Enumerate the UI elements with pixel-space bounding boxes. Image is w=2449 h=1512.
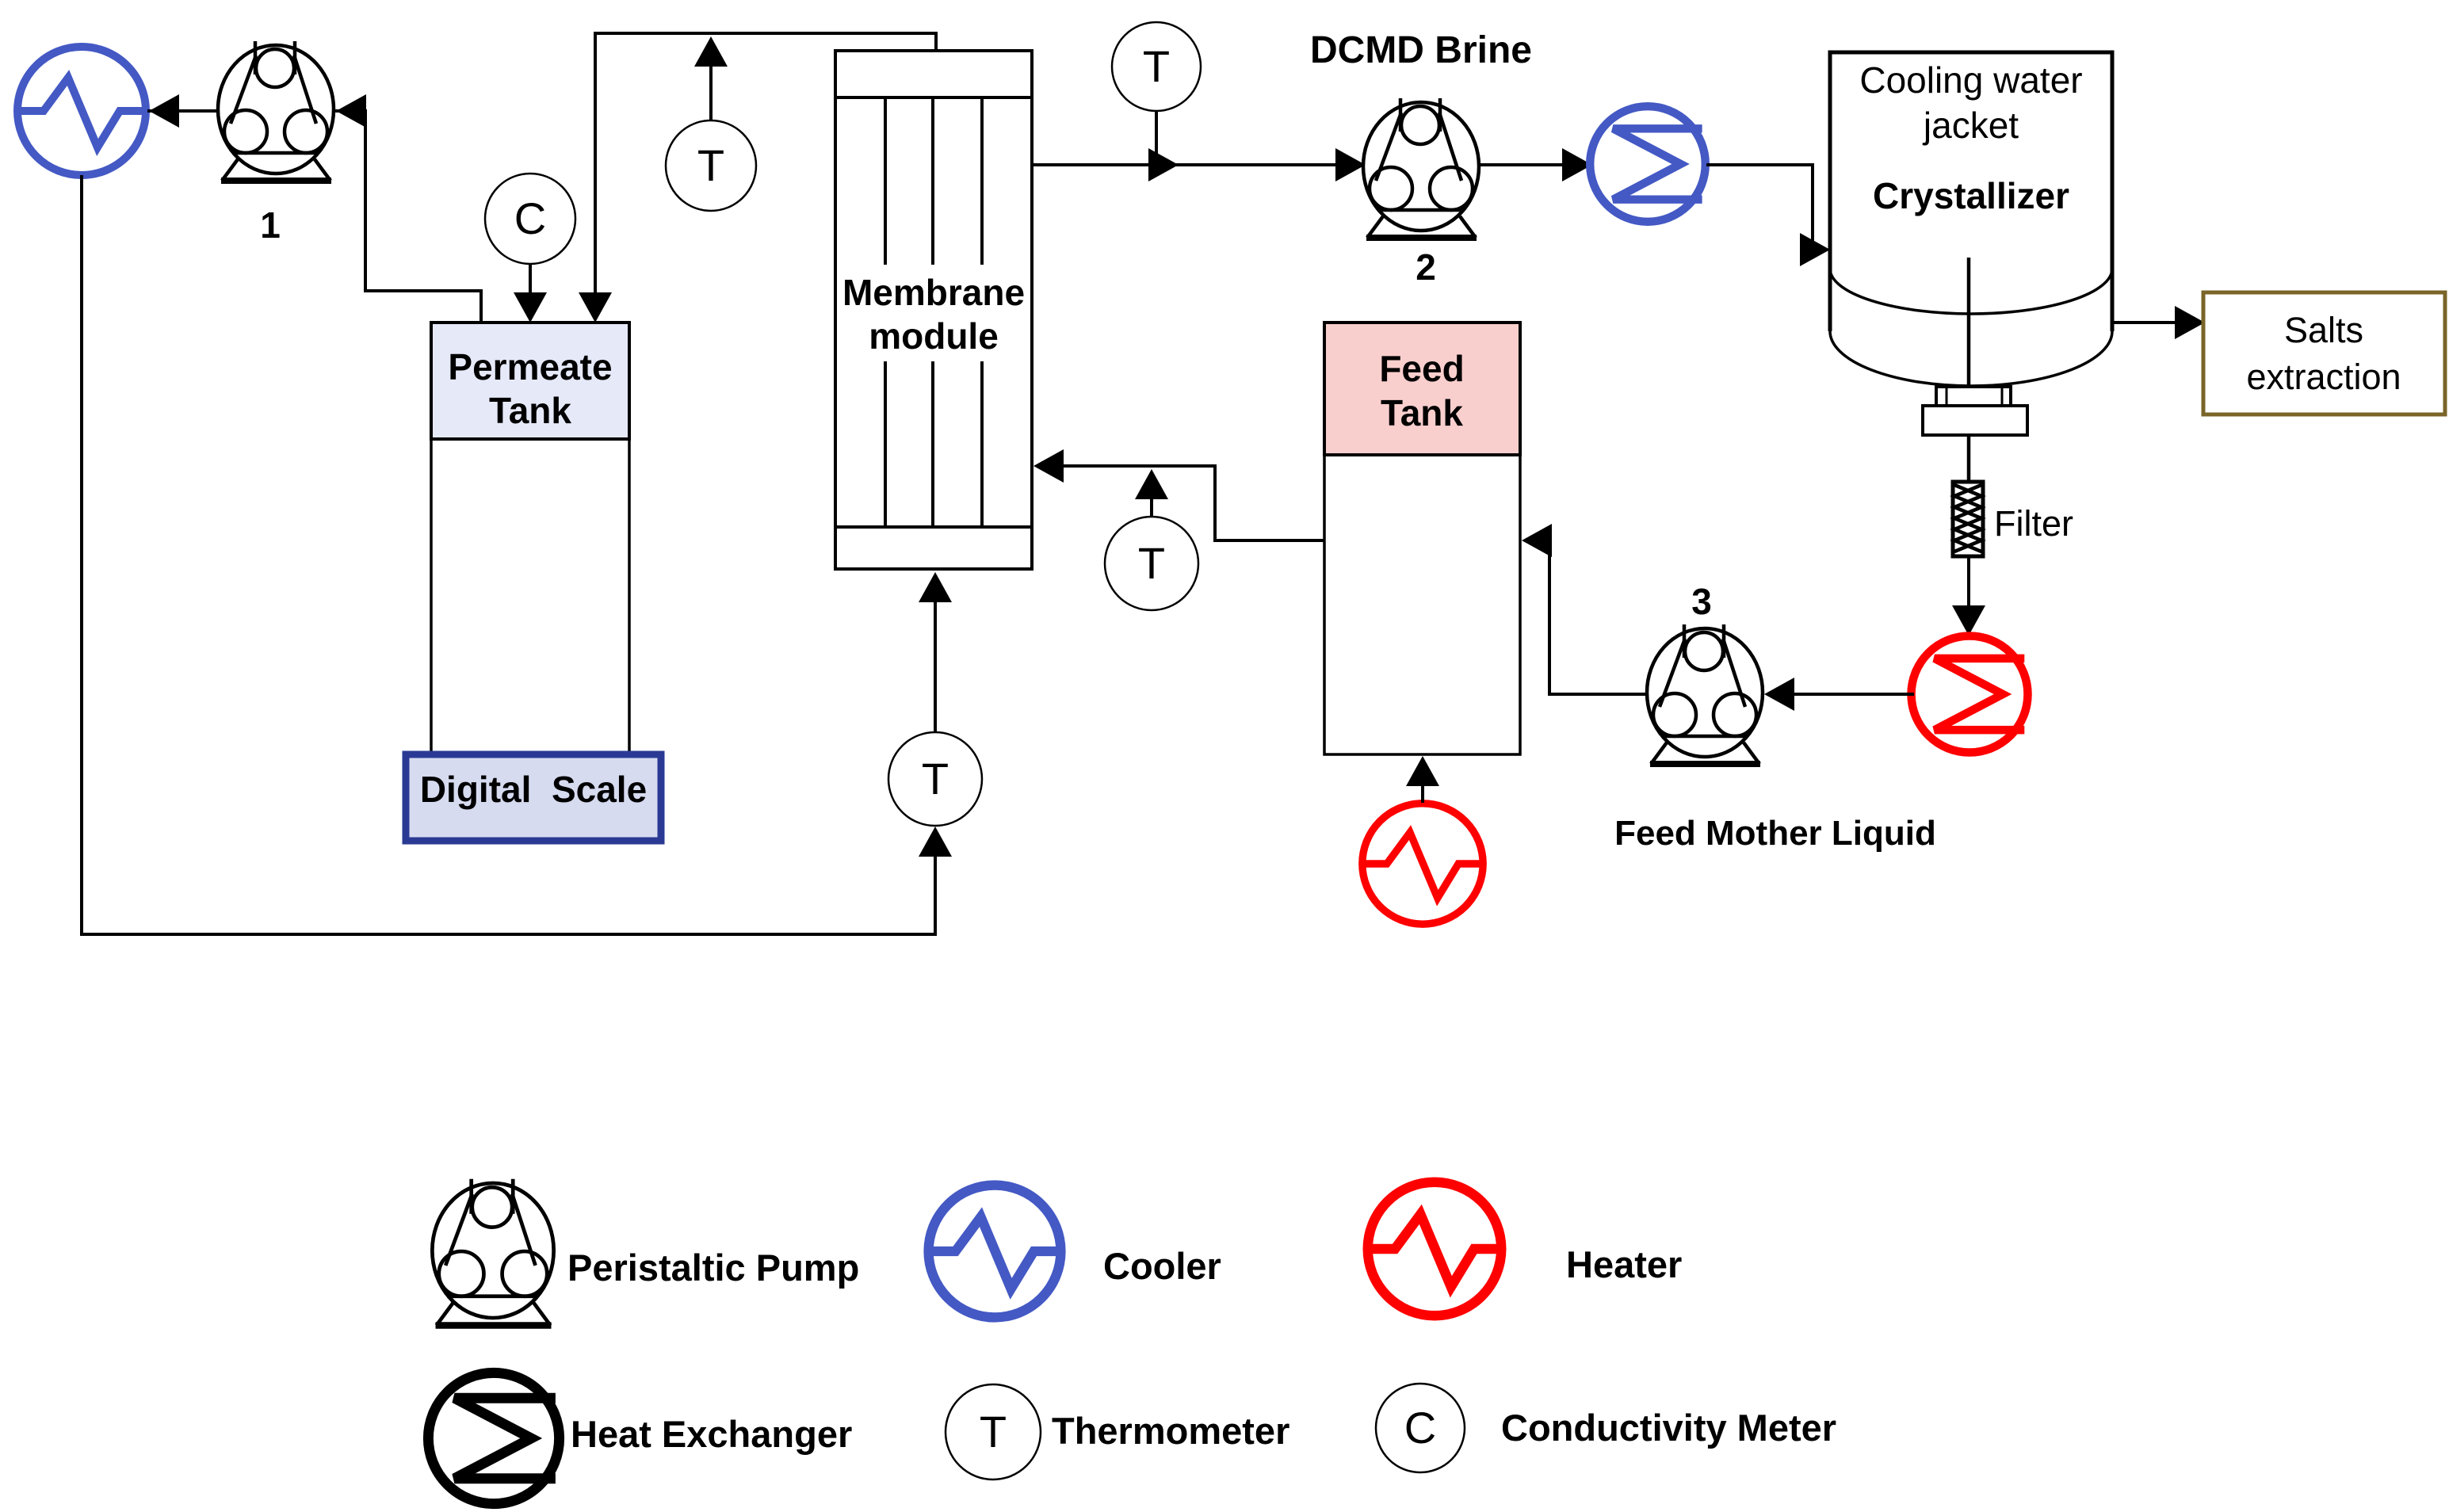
arrowhead into pump 3	[1764, 678, 1794, 711]
arrowhead mid brine line	[1148, 148, 1179, 181]
peristaltic pump 1	[218, 41, 334, 181]
svg-text:Tank: Tank	[1381, 392, 1463, 433]
svg-text:Crystallizer: Crystallizer	[1873, 175, 2069, 216]
wire T up to return line	[709, 67, 713, 120]
membrane module body	[835, 51, 1032, 569]
svg-text:jacket: jacket	[1922, 105, 2019, 146]
thermometer T (permeate return)	[666, 120, 756, 211]
digital scale	[406, 754, 661, 841]
svg-text:extraction: extraction	[2246, 357, 2401, 397]
svg-text:Feed: Feed	[1379, 348, 1464, 389]
svg-text:3: 3	[1691, 581, 1712, 622]
thermometer T (brine)	[1112, 22, 1201, 111]
outlet neck	[1936, 387, 2011, 406]
svg-text:T: T	[980, 1407, 1007, 1457]
conductivity meter C	[485, 174, 575, 264]
wire crystallizer to salts extraction	[2112, 321, 2178, 324]
feed tank body	[1324, 455, 1520, 754]
arrowhead into cooler	[149, 94, 179, 128]
membrane fiber line 2	[931, 97, 934, 527]
legend cooler symbol	[929, 1186, 1061, 1318]
arrowhead into tank top	[579, 292, 612, 323]
wire thermometer to brine line	[1155, 111, 1158, 163]
wire heat exchanger to crystallizer	[1706, 165, 1817, 250]
arrowhead into feed tank bottom	[1406, 756, 1439, 786]
wire red heat exchanger to pump 3	[1794, 693, 1914, 696]
wire pump 1 to cooler	[147, 109, 220, 113]
svg-text:Tank: Tank	[489, 390, 571, 431]
membrane module label	[839, 265, 1028, 361]
membrane fiber line 1	[884, 97, 887, 527]
arrowhead into salts extraction	[2175, 306, 2205, 339]
peristaltic pump 2	[1363, 98, 1479, 238]
svg-text:Digital Scale: Digital Scale	[420, 769, 647, 810]
arrowhead into crystallizer	[1800, 233, 1830, 266]
arrowhead into feed tank	[1522, 524, 1552, 557]
svg-text:Salts: Salts	[2284, 310, 2363, 350]
svg-text:T: T	[1138, 538, 1165, 588]
wire membrane module top to permeate tank	[595, 33, 936, 296]
wire thermometer to feed line	[1150, 498, 1153, 517]
arrowhead up to return line	[694, 36, 728, 67]
outlet flange	[1923, 406, 2027, 435]
permeate tank body	[431, 439, 629, 754]
svg-text:Feed Mother Liquid: Feed Mother Liquid	[1614, 814, 1936, 853]
heat exchanger (red)	[1912, 636, 2028, 753]
peristaltic pump 3	[1647, 624, 1763, 764]
feed tank header	[1324, 323, 1520, 455]
svg-text:C: C	[514, 193, 546, 243]
svg-text:Cooler: Cooler	[1103, 1245, 1221, 1287]
arrowhead up to feed line	[1135, 469, 1168, 499]
svg-text:Cooling water: Cooling water	[1859, 59, 2082, 101]
svg-text:Heater: Heater	[1566, 1243, 1682, 1285]
svg-text:T: T	[1143, 41, 1170, 91]
svg-text:1: 1	[260, 204, 281, 246]
wire cooler to bottom thermometer (long return)	[82, 175, 935, 934]
wire heater to feed tank	[1421, 785, 1424, 803]
arrowhead into tank from C	[514, 292, 547, 323]
arrowhead into heat exchanger	[1562, 148, 1592, 181]
membrane module top header line	[835, 96, 1032, 99]
legend heater symbol	[1368, 1182, 1501, 1315]
arrowhead into bottom thermometer	[919, 827, 952, 857]
wire membrane to pump 2 (DCMD brine line)	[1032, 163, 1365, 166]
svg-text:Filter: Filter	[1994, 503, 2073, 544]
wire pump 3 to feed tank	[1545, 540, 1647, 694]
arrowhead into membrane bottom	[919, 572, 952, 602]
svg-text:T: T	[922, 754, 949, 804]
wire permeate tank to pump 1	[335, 111, 481, 323]
wire C to permeate tank	[529, 264, 532, 296]
svg-text:Conductivity Meter: Conductivity Meter	[1501, 1407, 1836, 1449]
heater (red, under feed tank)	[1362, 804, 1483, 924]
arrowhead into pump 2	[1335, 148, 1366, 181]
salts extraction box	[2203, 292, 2445, 414]
legend heat exchanger symbol	[428, 1373, 559, 1503]
wire thermometer to membrane bottom	[934, 602, 937, 732]
heat exchanger (blue)	[1590, 106, 1706, 222]
arrowhead into red heat exchanger	[1952, 605, 1985, 636]
arrowhead into pump 1	[336, 94, 366, 128]
wire pump 2 to heat exchanger	[1480, 163, 1589, 166]
svg-text:module: module	[869, 315, 999, 357]
thermometer T (feed line)	[1105, 517, 1198, 610]
thermometer T (cold inlet)	[888, 732, 982, 826]
agitator shaft	[1967, 258, 1971, 482]
permeate tank header	[431, 323, 629, 439]
svg-text:Heat Exchanger: Heat Exchanger	[571, 1413, 852, 1455]
wire filter to red heat exchanger	[1967, 556, 1970, 605]
legend conductivity meter symbol	[1376, 1384, 1465, 1472]
wire feed tank to membrane module	[1062, 466, 1324, 540]
crystallizer vessel	[1830, 52, 2112, 386]
svg-text:DCMD Brine: DCMD Brine	[1310, 29, 1532, 71]
svg-text:Peristaltic Pump: Peristaltic Pump	[567, 1247, 859, 1289]
svg-text:C: C	[1404, 1403, 1436, 1453]
membrane module bottom header line	[835, 525, 1032, 529]
svg-text:Thermometer: Thermometer	[1052, 1410, 1289, 1452]
membrane fiber line 3	[980, 97, 984, 527]
legend thermometer symbol	[946, 1384, 1041, 1480]
filter	[1953, 482, 1983, 556]
svg-text:2: 2	[1416, 246, 1436, 288]
arrowhead into membrane module	[1033, 449, 1064, 483]
svg-text:Permeate: Permeate	[448, 346, 612, 388]
legend peristaltic pump symbol	[432, 1179, 553, 1326]
cooler (blue, top-left)	[17, 47, 146, 175]
svg-text:Membrane: Membrane	[842, 272, 1025, 313]
svg-text:T: T	[697, 140, 724, 190]
